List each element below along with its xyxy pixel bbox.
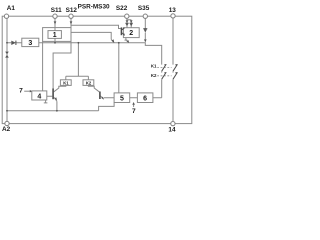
svg-text:K2: K2	[86, 80, 92, 85]
svg-text:3: 3	[28, 40, 32, 47]
svg-text:4: 4	[37, 93, 41, 100]
svg-text:S22: S22	[116, 5, 128, 12]
svg-text:7: 7	[19, 88, 23, 95]
svg-text:6: 6	[143, 95, 147, 102]
svg-text:A1: A1	[7, 5, 16, 12]
svg-text:A2: A2	[2, 126, 11, 133]
svg-text:K1: K1	[63, 80, 69, 85]
svg-text:S11: S11	[51, 7, 62, 14]
svg-text:2: 2	[129, 30, 133, 37]
svg-text:14: 14	[168, 127, 176, 134]
svg-text:S12: S12	[66, 7, 78, 14]
svg-text:13: 13	[169, 7, 177, 14]
svg-text:K2: K2	[151, 73, 157, 78]
svg-text:K1: K1	[151, 64, 157, 69]
svg-text:1: 1	[53, 32, 57, 39]
svg-text:S35: S35	[138, 5, 150, 12]
svg-text:7: 7	[132, 108, 136, 115]
svg-text:5: 5	[120, 95, 124, 102]
svg-text:PSR-MS30: PSR-MS30	[78, 4, 110, 11]
